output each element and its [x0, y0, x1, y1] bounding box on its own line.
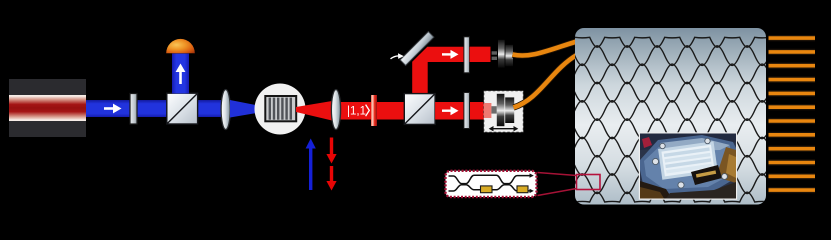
arrow in bottom red beam: [442, 106, 459, 115]
ket label |1,1>: [347, 105, 369, 118]
steel blue mounting plate (fills most of frame): [640, 135, 736, 194]
MZI unit-cell highlight rectangle on chip: [577, 175, 601, 190]
screws: [652, 138, 727, 188]
polarizing beamsplitter PBS: [404, 94, 435, 125]
MZI output arrowheads: [530, 173, 534, 177]
MZI schematic inset box: [446, 171, 537, 197]
MZI schematic waveguides: [449, 175, 531, 191]
red beam tip inside stage: [484, 103, 492, 118]
collimating lens L2: [331, 90, 340, 130]
bandpass filter (red): [371, 95, 377, 126]
photon-pair beam (red) with state label: [338, 102, 405, 120]
crystal mount disc: [255, 84, 306, 135]
waveguide mesh on chip: [560, 37, 785, 202]
bright chip in middle: [658, 141, 718, 179]
MZI unit-cell callout lines: [538, 173, 577, 176]
dark brown cables bottom-left: [640, 181, 672, 199]
output fiber array (12 fibers): [769, 38, 816, 190]
stage translation double arrow: [489, 126, 519, 131]
monitor beam (blue) vertical: [172, 54, 189, 94]
pump beam (blue) horizontal: [86, 100, 231, 117]
pale glare on plate top: [660, 138, 730, 151]
red beam into top coupler: [470, 47, 491, 62]
optical isolator (thin plate): [130, 94, 137, 125]
half-wave plate bottom: [464, 93, 470, 129]
fiber coupler FC2 (bottom): [491, 94, 514, 126]
laser housing bottom block: [9, 121, 86, 137]
arrow in top red beam: [442, 50, 459, 59]
energy diagram: pump photon up arrow (blue): [306, 139, 316, 191]
photonic chip body: [575, 28, 766, 205]
transmitted red beam after PBS: [435, 102, 484, 120]
laser housing top block: [9, 79, 86, 96]
small white arrow near mirror: [391, 53, 404, 59]
phase shifter 1 (gold): [481, 186, 493, 193]
photodiode dome PD: [166, 39, 195, 53]
steering mirror M1: [400, 32, 434, 66]
dark navy top band: [640, 134, 736, 151]
red beam up from PBS to mirror, bent right: [412, 47, 490, 94]
half-wave plate top: [464, 37, 470, 73]
translation stage (dashed box): [484, 91, 524, 133]
beam direction arrow 1: [104, 104, 122, 114]
focusing blue beam into crystal: [230, 100, 264, 118]
collimating lens L1: [221, 90, 230, 130]
up arrow in monitor beam: [176, 64, 186, 85]
diverging red beam out of crystal: [296, 101, 332, 121]
svg-text:|1,1: |1,1: [347, 106, 366, 118]
dark connector with gold pins: [691, 165, 722, 185]
optical fiber from FC2 to chip: [514, 55, 578, 108]
nonlinear crystal ppKTP: [265, 96, 296, 121]
chip photograph inset: [639, 132, 737, 199]
fiber coupler FC1 (top): [492, 40, 513, 68]
energy diagram: two down-converted photons (red down arrows): [326, 138, 336, 191]
pickoff beamsplitter cube BS1: [167, 93, 198, 124]
red patch top-left: [642, 137, 652, 148]
phase shifter 2 (gold): [517, 186, 528, 193]
warm brass right side: [716, 147, 736, 183]
optical fiber from FC1 to chip: [513, 42, 577, 56]
laser gain medium band: [9, 95, 86, 121]
bottom dark edge: [666, 182, 736, 199]
